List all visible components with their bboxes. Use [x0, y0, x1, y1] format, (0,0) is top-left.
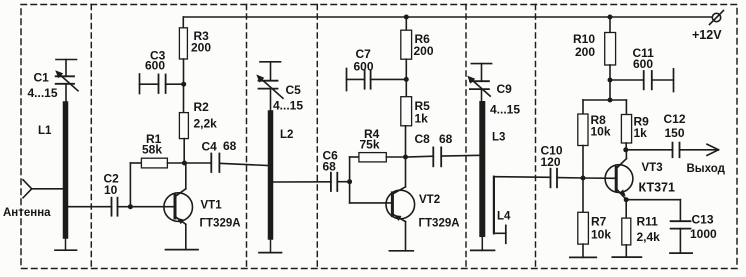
resistor R4 75k [350, 153, 406, 203]
node R8/C10/R7/base junction [581, 176, 586, 181]
capacitor C12 150 [626, 143, 680, 158]
wire R2 to collector node [183, 139, 185, 163]
resistor R1 58k [130, 158, 184, 207]
wire R3 to node [183, 59, 185, 113]
svg-text:200: 200 [575, 45, 595, 59]
svg-text:+12V: +12V [692, 28, 722, 42]
ground (VT1 emitter) [166, 249, 199, 251]
ground (C13 bottom bar) [670, 252, 692, 254]
capacitor C10 120 [551, 169, 584, 188]
dashed separator (L2 | VT2 stage) [316, 5, 318, 269]
ground (L1 bottom bar) [55, 249, 77, 251]
wire C4 to L2 [219, 163, 268, 165]
dashed separator (L3 L4 | VT3 stage) [535, 5, 537, 269]
node R4/R5/C8/collector junction [403, 155, 408, 160]
wire base lead VT1 [130, 206, 173, 208]
inductor L1 (vertical bar) [63, 104, 69, 250]
svg-text:VT3: VT3 [642, 162, 663, 174]
inductor L2 (vertical bar) [268, 113, 274, 253]
wire C8 to L3 [441, 154, 480, 157]
svg-text:R7: R7 [591, 215, 607, 229]
svg-text:R10: R10 [573, 32, 595, 46]
capacitor C8 68 [406, 147, 481, 166]
transistor VT3 КТ371 (NPN) [605, 150, 633, 218]
svg-text:C1: C1 [34, 71, 50, 85]
inductor L3 (vertical bar) [479, 104, 485, 250]
dashed separator (VT1 stage | L2) [246, 5, 248, 269]
wire collector up [405, 157, 407, 187]
node junction rail-R6 [404, 15, 409, 20]
svg-text:68: 68 [223, 139, 237, 153]
resistor R3 200 [179, 28, 187, 59]
svg-text:200: 200 [414, 44, 434, 58]
svg-text:L1: L1 [38, 125, 52, 137]
wire rail node down to R6 [405, 17, 407, 30]
node R9/collector/C12 junction [623, 147, 628, 152]
svg-text:75k: 75k [360, 138, 380, 152]
svg-text:C12: C12 [664, 112, 686, 126]
resistor R10 200 [605, 33, 616, 66]
svg-text:600: 600 [633, 57, 653, 71]
wire R1 left lead down to base node [129, 163, 131, 207]
svg-text:2,2k: 2,2k [194, 117, 218, 131]
svg-text:L3: L3 [492, 132, 505, 144]
svg-text:Антенна: Антенна [3, 207, 51, 219]
svg-text:68: 68 [323, 160, 337, 174]
svg-text:600: 600 [354, 60, 374, 74]
svg-text:ГТ329А: ГТ329А [419, 218, 460, 230]
svg-text:C13: C13 [692, 213, 714, 227]
svg-text:Выход: Выход [687, 163, 726, 175]
capacitor C9 (trimmer 4...15) [467, 64, 491, 104]
wire rail node down to R10 [609, 17, 611, 33]
svg-text:КТ371: КТ371 [639, 181, 675, 195]
inductor L4 (coupling bar) [494, 177, 506, 244]
ground (R11 bottom bar) [612, 256, 641, 258]
wire L4 top to C10 [494, 176, 551, 179]
svg-text:R11: R11 [637, 215, 659, 229]
resistor R11 2,4k [622, 218, 631, 257]
svg-text:ГТ329А: ГТ329А [200, 218, 241, 230]
capacitor C11 600 with chassis tie [610, 69, 674, 92]
wire collector up [625, 150, 627, 159]
wire R10 to splitter [609, 65, 611, 100]
resistor R6 200 [401, 30, 412, 59]
resistor R2 2,2k [179, 113, 188, 139]
svg-text:1k: 1k [634, 126, 648, 140]
node C3/R3/R2 junction [181, 82, 186, 87]
svg-text:4...15: 4...15 [490, 103, 520, 117]
ground (R7 bottom bar) [570, 256, 597, 258]
wire R5 to collector node [405, 126, 407, 157]
dashed separator (VT2 stage | L3 L4) [465, 5, 467, 269]
transistor VT2 ГТ329А (PNP) [386, 157, 415, 251]
resistor R5 1k [401, 97, 412, 126]
svg-text:10: 10 [104, 183, 118, 197]
capacitor C7 600 with chassis tie [347, 69, 405, 91]
wire L4 bottom to chassis tie [494, 232, 506, 234]
node C7/R6/R5 junction [404, 77, 409, 82]
wire output with arrow Выход [680, 144, 719, 155]
wire splitter horizontal [583, 99, 626, 101]
antenna input fork [23, 180, 64, 198]
transistor VT1 ГТ329А (PNP) [164, 163, 193, 250]
wire L2 tap to C6 [273, 181, 331, 183]
node emitter/R11/C13 junction [624, 197, 629, 202]
wire antenna to L1 [32, 188, 64, 190]
node C6/R4/base junction [347, 179, 352, 184]
ground (VT2 emitter) [389, 250, 413, 252]
ground (L3 bottom bar) [471, 249, 495, 251]
wire base lead VT3 [583, 177, 615, 179]
svg-text:68: 68 [439, 132, 453, 146]
capacitor C4 68 [184, 154, 268, 173]
svg-text:L2: L2 [280, 129, 293, 141]
terminal +12V [712, 13, 720, 21]
wire rail corner down to R3 [182, 17, 184, 28]
svg-text:R2: R2 [194, 100, 210, 114]
svg-text:120: 120 [541, 155, 561, 169]
svg-text:1000: 1000 [690, 227, 717, 241]
node R1/R2/C4/collector junction [182, 161, 187, 166]
svg-text:600: 600 [145, 59, 165, 73]
svg-text:200: 200 [191, 41, 211, 55]
svg-text:10k: 10k [591, 125, 611, 139]
dashed separator (antenna | VT1 stage) [90, 5, 92, 269]
node R8/R9 splitter junction [608, 98, 613, 103]
svg-text:C5: C5 [286, 83, 302, 97]
wire base lead VT2 [350, 202, 391, 204]
svg-text:150: 150 [665, 126, 685, 140]
wire R4 left lead down to base [349, 157, 351, 203]
wire emitter down [185, 224, 187, 249]
capacitor C2 10 [68, 198, 130, 216]
capacitor C3 600 with chassis tie [140, 74, 182, 94]
resistor R9 1k [621, 100, 631, 150]
wire +12V power rail [183, 16, 711, 18]
svg-text:4...15: 4...15 [273, 99, 303, 113]
svg-text:VT2: VT2 [419, 194, 440, 206]
svg-text:C8: C8 [415, 132, 431, 146]
svg-text:10k: 10k [591, 228, 611, 242]
capacitor C6 68 [331, 173, 350, 191]
svg-text:L4: L4 [497, 211, 511, 223]
node R10/C11 junction [608, 78, 613, 83]
capacitor C13 1000 [626, 200, 690, 253]
ground (L2 bottom bar) [259, 252, 282, 254]
svg-text:4...15: 4...15 [28, 86, 58, 100]
node junction rail-R10 [608, 15, 613, 20]
svg-text:VT1: VT1 [201, 200, 223, 212]
capacitor C1 (trimmer 4...15) [55, 60, 78, 105]
wire collector up [185, 163, 187, 189]
capacitor C5 (trimmer 4...15) [256, 62, 283, 113]
resistor R7 10k [578, 178, 589, 257]
wire emitter down [625, 200, 627, 219]
svg-text:1k: 1k [415, 112, 429, 126]
svg-text:2,4k: 2,4k [637, 230, 661, 244]
svg-text:58k: 58k [142, 143, 162, 157]
svg-text:C4: C4 [202, 140, 218, 154]
svg-text:C9: C9 [497, 82, 513, 96]
resistor R8 10k [578, 100, 588, 178]
node C2/R1/base junction [128, 204, 133, 209]
wire R6 to node [405, 59, 407, 96]
wire emitter down [405, 222, 407, 251]
